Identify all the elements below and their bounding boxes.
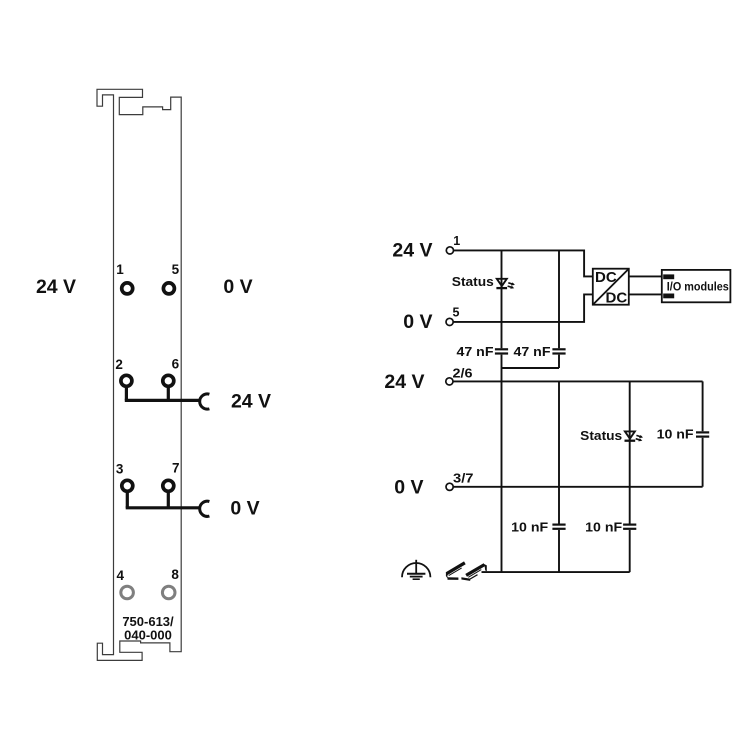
- svg-text:24 V: 24 V: [36, 276, 76, 298]
- DC/DC converter U1: [593, 269, 629, 307]
- svg-text:3: 3: [116, 462, 124, 477]
- power jumper contact 24V: [200, 394, 210, 409]
- svg-text:2: 2: [115, 357, 123, 372]
- wire DC/DC out top: [629, 275, 662, 277]
- wire terminal 6 drop: [167, 388, 170, 401]
- wire vertical C (LED2 + 10nF branch): [629, 381, 631, 572]
- wire 0V jumper rail: [453, 486, 702, 488]
- capacitor C5 10 nF (on C): [623, 525, 636, 529]
- terminal 7: [163, 480, 174, 491]
- wire vertical B upper (47nF branch): [558, 250, 560, 368]
- node 1 terminal circle: [446, 247, 453, 254]
- svg-text:47 nF: 47 nF: [457, 344, 494, 359]
- svg-text:10 nF: 10 nF: [585, 519, 622, 534]
- svg-text:6: 6: [172, 357, 180, 372]
- svg-text:24 V: 24 V: [392, 240, 432, 262]
- svg-text:0 V: 0 V: [394, 477, 423, 499]
- svg-text:24 V: 24 V: [384, 371, 424, 393]
- wire DC/DC out bottom: [629, 293, 662, 295]
- terminal 1: [122, 283, 133, 294]
- svg-text:4: 4: [117, 568, 125, 583]
- wire terminal 7 drop: [167, 493, 170, 508]
- wire 24V rail (node1 to DC/DC): [454, 250, 593, 276]
- svg-text:I/O modules: I/O modules: [667, 281, 729, 293]
- svg-text:1: 1: [453, 234, 460, 248]
- svg-text:Status: Status: [452, 274, 494, 289]
- wire terminal 2 drop: [125, 388, 128, 401]
- svg-text:8: 8: [171, 567, 179, 582]
- svg-text:DC: DC: [606, 290, 628, 307]
- svg-text:7: 7: [172, 461, 180, 476]
- terminal 8 (unused, grey): [162, 586, 175, 599]
- capacitor C2 47 nF: [552, 349, 565, 353]
- terminal 6: [163, 375, 174, 386]
- wire 0V jumper bus: [126, 506, 200, 509]
- node 3/7 terminal circle: [446, 483, 453, 490]
- svg-text:1: 1: [116, 262, 124, 277]
- wire 24V jumper bus: [125, 399, 200, 402]
- LED D1 status: [496, 279, 515, 289]
- wire 24V jumper rail: [453, 380, 702, 382]
- LED D2 status: [625, 431, 644, 441]
- capacitor C3 10 nF (on D): [696, 432, 709, 436]
- svg-text:0 V: 0 V: [223, 276, 252, 298]
- svg-text:0 V: 0 V: [230, 498, 259, 520]
- capacitor C4 10 nF (on B): [552, 525, 565, 529]
- wire joining 47nF branches: [502, 367, 560, 369]
- node 5 terminal circle: [446, 318, 453, 325]
- svg-text:5: 5: [172, 262, 180, 277]
- svg-text:5: 5: [453, 306, 460, 320]
- wire vertical D (10nF to 0V branch): [702, 381, 704, 486]
- svg-text:DC: DC: [595, 269, 617, 286]
- wire vertical A (LED + 47nF branch): [501, 250, 503, 572]
- node 2/6 terminal circle: [446, 378, 453, 385]
- svg-text:10 nF: 10 nF: [511, 519, 548, 534]
- terminal 3: [122, 480, 133, 491]
- wire vertical B lower (10nF branch): [558, 381, 560, 572]
- functional earth symbol: [402, 560, 430, 579]
- capacitor C1 47 nF: [495, 349, 508, 353]
- wire 0V rail (node5 to DC/DC): [453, 294, 593, 322]
- wire earth bus: [482, 571, 630, 573]
- svg-text:47 nF: 47 nF: [514, 344, 551, 359]
- svg-text:040-000: 040-000: [124, 627, 172, 642]
- power jumper contact 0V: [200, 501, 210, 516]
- terminal 2: [121, 375, 132, 386]
- svg-text:10 nF: 10 nF: [657, 427, 694, 442]
- wire terminal 3 drop: [126, 493, 129, 508]
- I/O modules block: [662, 270, 731, 302]
- terminal 4 (unused, grey): [121, 586, 134, 599]
- svg-text:24 V: 24 V: [231, 390, 271, 412]
- terminal 5: [163, 283, 174, 294]
- svg-text:0 V: 0 V: [403, 311, 432, 333]
- module body outline: [97, 89, 181, 660]
- svg-text:Status: Status: [580, 428, 622, 443]
- DIN rail (carrier rail) symbol: [446, 562, 487, 581]
- svg-text:3/7: 3/7: [453, 471, 474, 485]
- svg-text:2/6: 2/6: [453, 366, 473, 380]
